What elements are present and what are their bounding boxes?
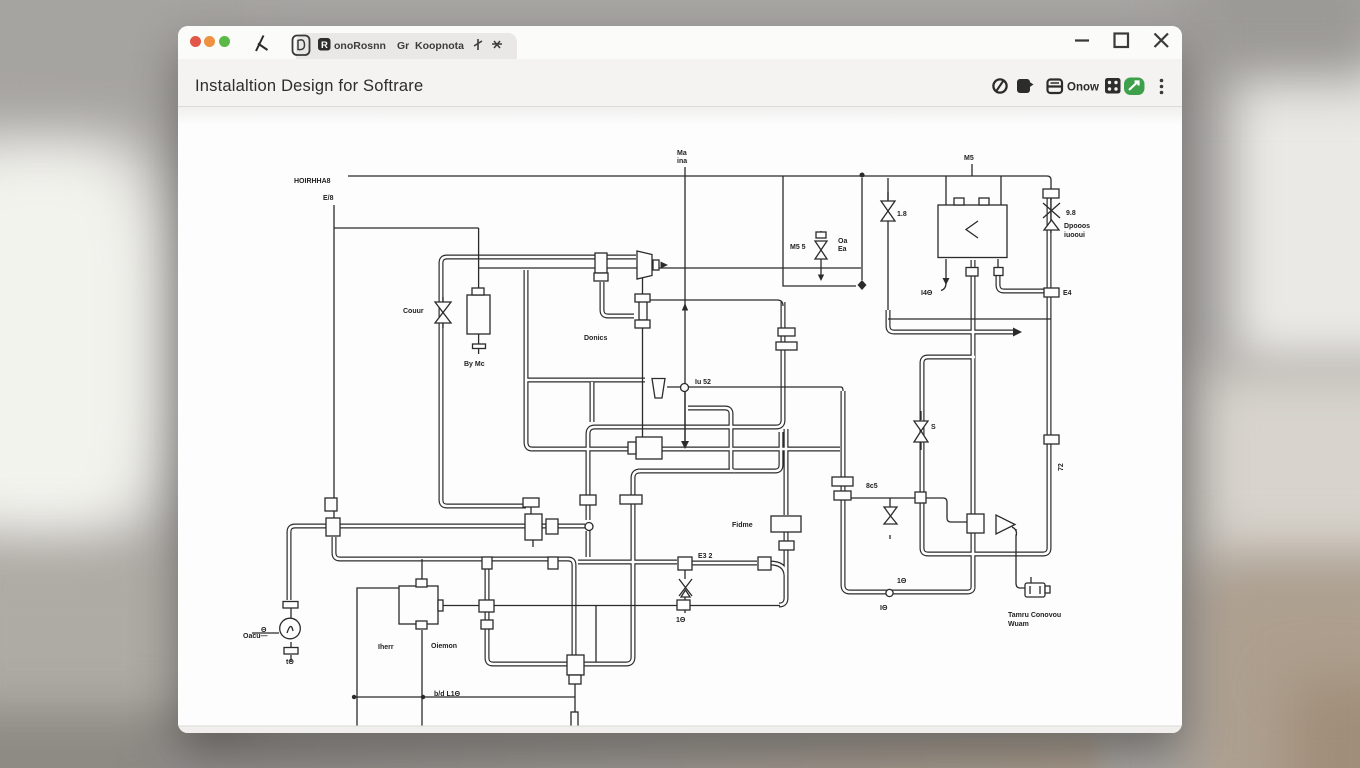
svg-text:Iu 52: Iu 52 bbox=[695, 379, 711, 386]
svg-text:By Mc: By Mc bbox=[464, 361, 485, 368]
svg-text:Ea: Ea bbox=[838, 246, 847, 253]
svg-text:Donics: Donics bbox=[584, 335, 607, 342]
svg-text:Oacu—: Oacu— bbox=[243, 633, 268, 640]
svg-text:Gr: Gr bbox=[397, 40, 409, 52]
svg-text:9.8: 9.8 bbox=[1066, 210, 1076, 217]
svg-text:iuooui: iuooui bbox=[1064, 232, 1085, 239]
svg-text:I4Θ: I4Θ bbox=[921, 290, 933, 297]
svg-text:Tamru Conovou: Tamru Conovou bbox=[1008, 612, 1061, 619]
svg-text:Ma: Ma bbox=[677, 150, 687, 157]
svg-text:M5 5: M5 5 bbox=[790, 244, 806, 251]
svg-text:Onow: Onow bbox=[1067, 82, 1099, 94]
svg-text:Koopnota: Koopnota bbox=[415, 40, 464, 52]
svg-text:8c5: 8c5 bbox=[866, 483, 878, 490]
svg-text:Oiemon: Oiemon bbox=[431, 643, 457, 650]
svg-text:R: R bbox=[321, 40, 328, 51]
svg-text:b/d L1Θ: b/d L1Θ bbox=[434, 691, 461, 698]
svg-text:72: 72 bbox=[1058, 463, 1065, 471]
svg-text:tΘ: tΘ bbox=[286, 659, 294, 666]
svg-text:1.8: 1.8 bbox=[897, 211, 907, 218]
svg-text:M5: M5 bbox=[964, 155, 974, 162]
svg-text:S: S bbox=[931, 424, 936, 431]
svg-text:Couur: Couur bbox=[403, 308, 424, 315]
svg-text:ina: ina bbox=[677, 158, 687, 165]
svg-text:HOIRHHA8: HOIRHHA8 bbox=[294, 178, 331, 185]
svg-text:E3 2: E3 2 bbox=[698, 553, 713, 560]
svg-text:E4: E4 bbox=[1063, 290, 1072, 297]
svg-text:1Θ: 1Θ bbox=[897, 578, 907, 585]
svg-text:Oa: Oa bbox=[838, 238, 847, 245]
svg-text:Θ: Θ bbox=[261, 627, 267, 634]
svg-text:Wuam: Wuam bbox=[1008, 621, 1029, 628]
svg-text:1Θ: 1Θ bbox=[676, 617, 686, 624]
svg-text:E/8: E/8 bbox=[323, 195, 334, 202]
svg-text:onoRosnn: onoRosnn bbox=[334, 40, 386, 52]
svg-text:Dpooos: Dpooos bbox=[1064, 223, 1090, 230]
svg-text:Iherr: Iherr bbox=[378, 644, 394, 651]
svg-text:IΘ: IΘ bbox=[880, 605, 888, 612]
svg-text:Fidme: Fidme bbox=[732, 522, 753, 529]
